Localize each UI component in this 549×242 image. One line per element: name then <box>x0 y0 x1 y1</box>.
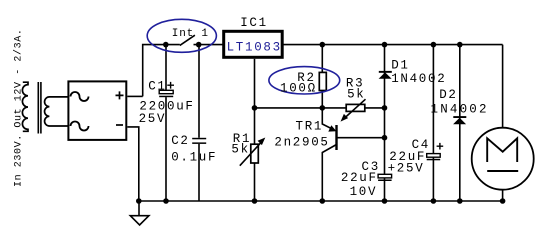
wire top rail left segment <box>143 45 180 97</box>
svg-text:C1: C1 <box>148 79 166 93</box>
node top D2 <box>457 42 463 48</box>
diode D1 triangle <box>379 72 392 78</box>
wire D2 branch <box>459 45 461 201</box>
wire top rail right segment <box>194 44 503 46</box>
node top D1 <box>382 42 388 48</box>
wire C4 branch <box>432 45 434 201</box>
motor M1 underline <box>487 170 518 172</box>
svg-text:1N4002: 1N4002 <box>431 102 489 116</box>
capacitor C1 top plate <box>159 90 173 93</box>
svg-text:+25V: +25V <box>388 161 425 175</box>
svg-text:25V: 25V <box>139 112 167 126</box>
svg-text:D2: D2 <box>439 88 457 102</box>
wire node row <box>255 107 385 109</box>
capacitor C2 bottom plate <box>192 142 206 144</box>
wire C2 branch <box>198 45 200 201</box>
switch Int1 right terminal <box>196 42 202 48</box>
node rail C4 <box>431 198 437 204</box>
motor M1 glyph <box>487 138 517 162</box>
resistor R1 body <box>251 144 258 163</box>
svg-text:2n2905: 2n2905 <box>274 136 329 150</box>
capacitor C4 bottom plate <box>427 159 441 161</box>
bridge minus mark <box>116 124 123 126</box>
wire bridge plus lead <box>127 95 142 97</box>
capacitor C3 top plate <box>378 174 392 178</box>
switch Int1 lever <box>180 35 195 45</box>
svg-text:TR1: TR1 <box>296 120 324 134</box>
wire bridge minus lead to ground rail <box>127 127 139 201</box>
node rail ground <box>136 198 142 204</box>
transistor TR1 base bar <box>335 125 337 150</box>
node rail C3 <box>382 198 388 204</box>
ground <box>130 201 149 225</box>
node rail D2 <box>457 198 463 204</box>
svg-text:22uF: 22uF <box>341 171 378 185</box>
wire motor branch <box>502 45 504 201</box>
node rail C1 <box>163 198 169 204</box>
capacitor C3 bottom plate <box>378 180 392 182</box>
svg-text:LT1083: LT1083 <box>227 40 282 54</box>
annotation ellipse R2 <box>269 67 340 94</box>
wire bottom rail <box>139 200 503 202</box>
wire R2 branch <box>321 45 323 108</box>
bridge AC symbol bottom <box>71 122 89 131</box>
plus mark C1 <box>167 82 174 89</box>
node rail TR1 <box>320 198 326 204</box>
svg-text:Int 1: Int 1 <box>172 28 209 40</box>
node rail motor <box>500 198 506 204</box>
resistor R3 body <box>346 104 365 111</box>
transformer T1 core <box>38 82 41 134</box>
IC IC1 LT1083 regulator body <box>224 31 283 57</box>
resistor R1 arrow <box>240 142 262 166</box>
wire C1 branch <box>165 45 167 201</box>
svg-text:In 230V. Out 12V - 2/3A.: In 230V. Out 12V - 2/3A. <box>12 29 24 187</box>
transformer T1 secondary coil <box>45 97 68 126</box>
wire TR1 base lead <box>337 137 385 139</box>
bridge AC symbol top <box>71 92 89 101</box>
node adj row mid <box>320 105 326 111</box>
capacitor C4 top plate <box>427 154 441 158</box>
motor M1 circle <box>472 128 534 190</box>
svg-text:10V: 10V <box>350 185 378 199</box>
svg-text:IC1: IC1 <box>240 16 268 30</box>
bridge plus mark <box>116 91 124 99</box>
resistor R3 arrow <box>344 99 366 118</box>
capacitor C2 top plate <box>192 138 206 140</box>
node adj row right <box>382 105 388 111</box>
svg-text:5k: 5k <box>347 88 365 102</box>
switch Int1 left terminal <box>163 42 169 48</box>
svg-text:0.1uF: 0.1uF <box>171 150 217 164</box>
annotation ellipse Int1 <box>147 19 216 52</box>
svg-text:100Ω: 100Ω <box>280 82 317 96</box>
svg-text:1N4002: 1N4002 <box>391 72 446 86</box>
node top C4 <box>431 42 437 48</box>
transistor TR1 collector <box>322 145 336 202</box>
svg-text:5k: 5k <box>231 143 249 157</box>
wire D1 C3 branch <box>384 45 386 201</box>
node top R2 <box>320 42 326 48</box>
node rail R1 <box>252 198 258 204</box>
svg-text:C2: C2 <box>171 134 189 148</box>
bridge rectifier box <box>68 81 126 139</box>
node adj row left <box>252 105 258 111</box>
transformer T1 primary coil <box>22 82 28 131</box>
capacitor C1 bottom plate <box>159 96 173 98</box>
wire IC1 ADJ pin <box>254 59 256 108</box>
diode D2 triangle <box>453 118 466 124</box>
plus mark C4 <box>437 143 444 150</box>
resistor R2 body <box>319 72 326 90</box>
transistor TR1 emitter <box>322 108 334 130</box>
svg-text:D1: D1 <box>391 59 409 73</box>
wire R1 branch <box>254 108 256 201</box>
node base <box>382 135 388 141</box>
diode D1 cathode bar <box>379 71 392 73</box>
diode D2 cathode bar <box>453 116 466 118</box>
